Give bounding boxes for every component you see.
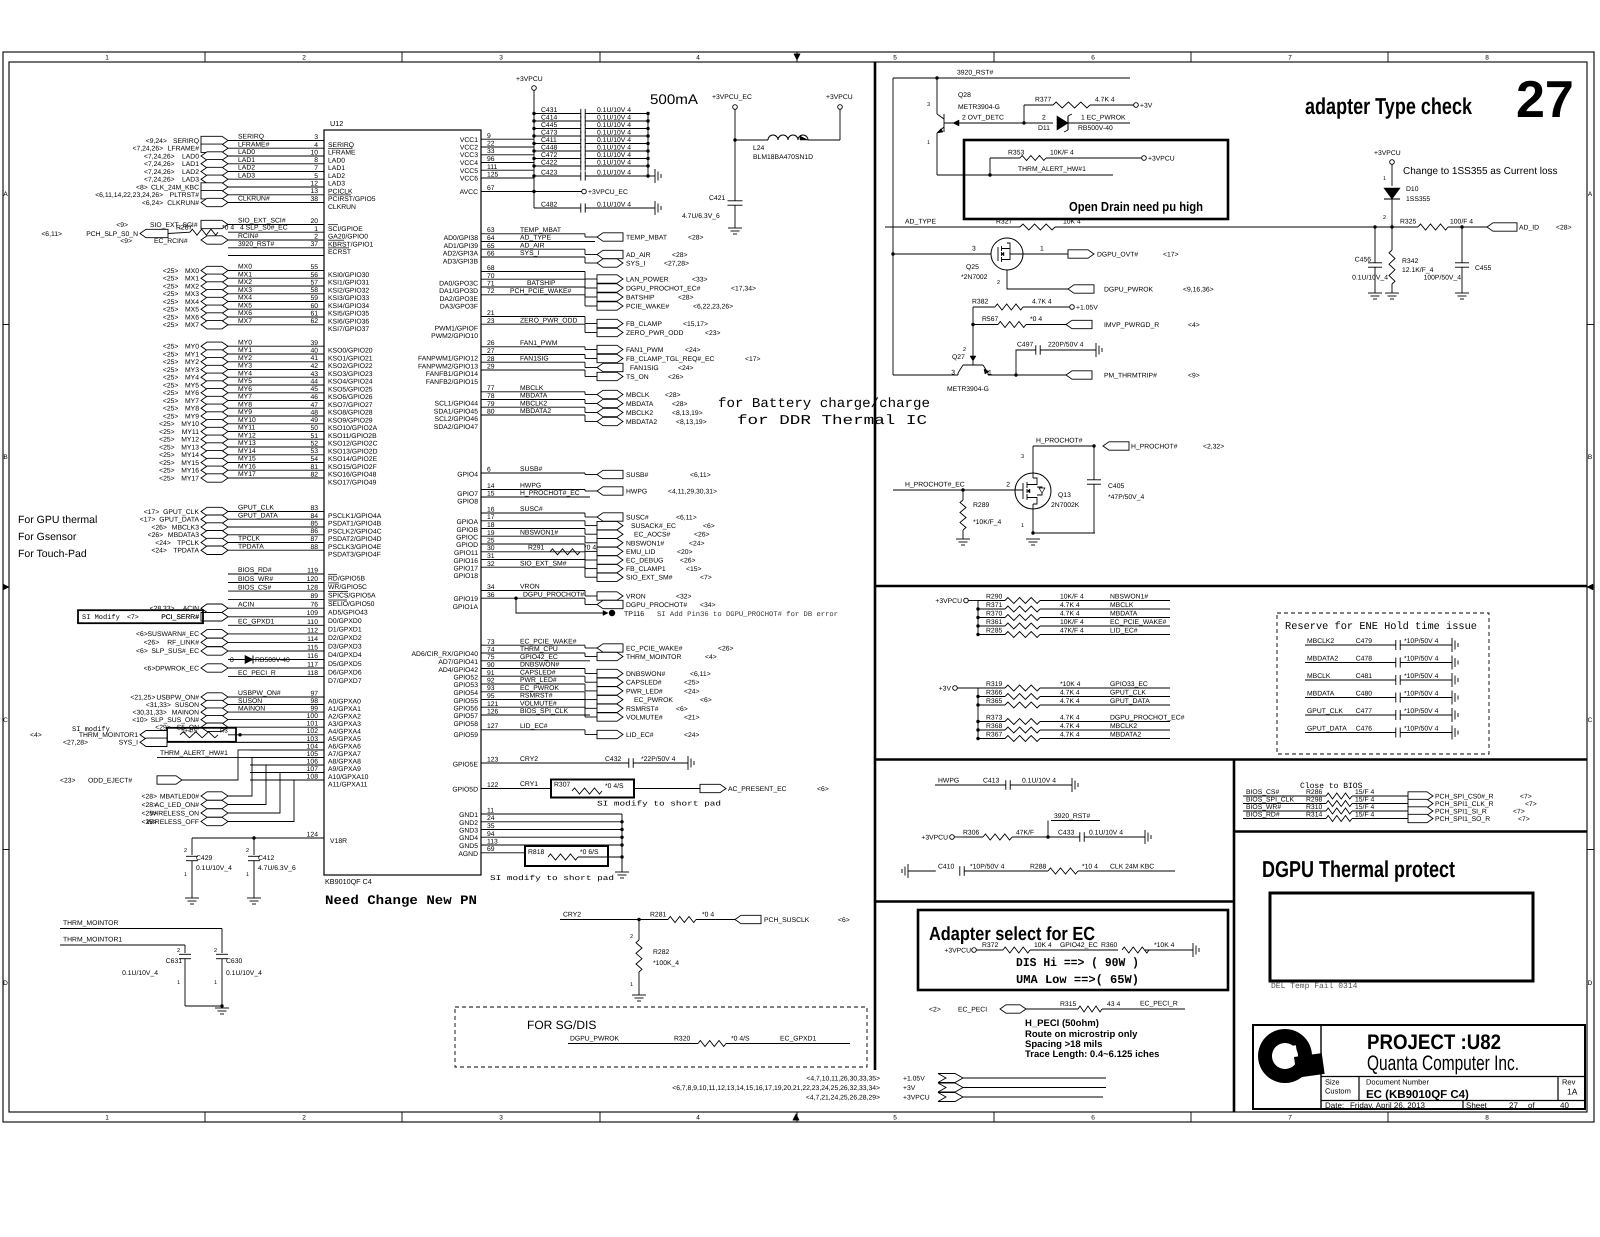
svg-text:47K/F: 47K/F (1016, 830, 1034, 837)
wire U12 pin 103 A6/GPXA6 (228, 741, 324, 743)
net callout PCH_SPI_CS0#_R (1408, 792, 1433, 800)
net callout EC_DEBUG (584, 552, 586, 560)
svg-text:107: 107 (307, 766, 319, 773)
svg-text:SIO_EXT_SCI#: SIO_EXT_SCI# (238, 218, 286, 225)
svg-text:<25>: <25> (163, 390, 179, 397)
svg-text:R567: R567 (982, 316, 998, 323)
svg-text:ECRST: ECRST (328, 249, 351, 256)
svg-text:ACIN: ACIN (238, 601, 254, 608)
svg-text:Open Drain need pu high: Open Drain need pu high (1069, 199, 1203, 214)
svg-text:3: 3 (972, 246, 976, 253)
svg-text:VCC1: VCC1 (460, 137, 478, 144)
svg-text:<28>: <28> (665, 392, 681, 399)
net callout SUSWARN#_EC (201, 630, 228, 639)
net callout MBDATA2 (584, 415, 586, 422)
svg-text:MAINON: MAINON (238, 705, 265, 712)
wire U12 pin 104 A7/GPXA7 (250, 749, 324, 751)
U12 pin 14 GPIO7 HWPG (481, 489, 585, 491)
net callout MY3 (201, 365, 228, 373)
svg-text:82: 82 (310, 472, 318, 479)
svg-text:<23>: <23> (705, 330, 721, 337)
svg-text:Reserve for ENE Hold time issu: Reserve for ENE Hold time issue (1285, 621, 1477, 633)
svg-text:<24>: <24> (155, 540, 171, 547)
wire U12 pin 93 (481, 691, 585, 693)
net callout ACIN (201, 604, 228, 612)
net callout TPDATA (201, 546, 228, 555)
svg-text:0.1U/10V 4: 0.1U/10V 4 (597, 152, 631, 159)
svg-text:*10P/50V 4: *10P/50V 4 (1404, 726, 1439, 733)
capacitor C456 0.1U/10V (1374, 227, 1376, 263)
svg-text:<21>: <21> (684, 715, 700, 722)
svg-text:R382: R382 (972, 299, 988, 306)
svg-text:72: 72 (487, 288, 495, 295)
svg-text:<28>: <28> (142, 793, 158, 800)
wire OVT_DETC base of Q28 (944, 122, 1053, 124)
svg-text:<26>: <26> (144, 640, 160, 647)
net callout MY4 (201, 373, 228, 381)
wire U12 pin 116 D5/GPXD5 (228, 659, 324, 661)
svg-text:RSMRST#: RSMRST# (520, 693, 553, 700)
svg-text:SI modify to short pad: SI modify to short pad (490, 874, 614, 883)
svg-text:FANPWM1/GPIO12: FANPWM1/GPIO12 (418, 356, 478, 363)
svg-text:BIOS_WR#: BIOS_WR# (238, 576, 273, 583)
resistor R367 4.7K 4 pullup for MBDATA2 (976, 737, 979, 740)
svg-text:<4>: <4> (1188, 322, 1200, 329)
capacitor C431 0.1U/10V 4 (534, 113, 581, 115)
ground for R289 (956, 538, 970, 540)
svg-text:87: 87 (310, 536, 318, 543)
net callout MAINON (201, 708, 228, 716)
wire U12 pin 78 SDA1/GPIO45 (481, 399, 585, 401)
svg-text:<25>: <25> (159, 468, 175, 475)
svg-text:<25>: <25> (163, 314, 179, 321)
svg-text:KSI4/GPIO34: KSI4/GPIO34 (328, 303, 369, 310)
ground for Q13 (1026, 538, 1040, 540)
svg-text:R361: R361 (986, 619, 1002, 626)
svg-text:R285: R285 (986, 628, 1002, 635)
svg-text:GND4: GND4 (459, 835, 478, 842)
svg-text:H_PROCHOT#: H_PROCHOT# (1131, 444, 1178, 451)
wire U12 pin 102 A5/GPXA5 (228, 734, 324, 736)
svg-text:SI modify to short pad: SI modify to short pad (597, 800, 721, 809)
wire U12 pin 117 D6/GPXD6 (228, 667, 324, 669)
wire U12 pin 16 (481, 512, 585, 514)
svg-text:1: 1 (246, 872, 249, 878)
svg-text:RF_LINK#: RF_LINK# (167, 640, 199, 647)
wire U12 pin 46 KSO7 (228, 400, 324, 402)
svg-text:GPIO5D: GPIO5D (452, 787, 478, 794)
svg-text:SLP_SUS_ON#: SLP_SUS_ON# (151, 717, 200, 724)
svg-text:47: 47 (310, 402, 318, 409)
wire U12 pin 35 GND3 (481, 829, 622, 831)
svg-text:31: 31 (487, 553, 495, 560)
svg-text:<25>: <25> (163, 291, 179, 298)
wire U12 pin 92 (481, 683, 585, 685)
svg-text:<31,33>: <31,33> (146, 702, 171, 709)
svg-text:CLK 24M KBC: CLK 24M KBC (1110, 864, 1154, 871)
svg-text:57: 57 (310, 280, 318, 287)
transistor Q27 METR3904-G thermtrip (972, 325, 974, 357)
svg-text:15/F 4: 15/F 4 (1355, 797, 1374, 804)
svg-text:<23>: <23> (60, 777, 76, 784)
svg-text:<4,7,10,11,26,30,33,35>: <4,7,10,11,26,30,33,35> (806, 1076, 880, 1083)
svg-text:101: 101 (307, 721, 319, 728)
svg-text:MY9: MY9 (238, 409, 252, 416)
svg-text:LAD2: LAD2 (238, 165, 255, 172)
svg-text:PCH_SPI1_SO_R: PCH_SPI1_SO_R (1435, 816, 1490, 823)
svg-text:*100K_4: *100K_4 (653, 960, 679, 967)
svg-text:122: 122 (487, 782, 499, 789)
svg-text:*10P/50V 4: *10P/50V 4 (1404, 673, 1439, 680)
net callout MX1 (201, 274, 228, 282)
wire U12 pin 66 AD3/GPI3B (481, 256, 585, 258)
svg-text:GPUT_CLK: GPUT_CLK (1307, 708, 1343, 715)
svg-text:<25>: <25> (142, 819, 158, 826)
svg-text:<7>: <7> (700, 575, 712, 582)
svg-text:MY8: MY8 (238, 401, 252, 408)
wire U12 pin 70 DA1/GPO3D (481, 278, 585, 280)
svg-text:*10 4: *10 4 (1082, 864, 1098, 871)
svg-text:71: 71 (487, 281, 495, 288)
svg-text:R319: R319 (986, 681, 1002, 688)
svg-text:108: 108 (307, 774, 319, 781)
ground symbol for GND bus (615, 871, 629, 873)
svg-text:+1.05V: +1.05V (1076, 305, 1098, 312)
svg-text:<25>: <25> (163, 299, 179, 306)
svg-text:<25>: <25> (163, 406, 179, 413)
svg-text:DNBSWON#: DNBSWON# (520, 662, 559, 669)
svg-text:C448: C448 (541, 144, 557, 151)
net AD_TYPE wire with R327 (885, 226, 1020, 228)
svg-text:BATSHIP: BATSHIP (527, 280, 556, 287)
svg-text:10K/F 4: 10K/F 4 (1060, 619, 1084, 626)
svg-text:PCH_SPI1_SI_R: PCH_SPI1_SI_R (1435, 809, 1487, 816)
svg-text:PSCLK2/GPIO4C: PSCLK2/GPIO4C (328, 528, 382, 535)
svg-text:KSI7/GPIO37: KSI7/GPIO37 (328, 326, 369, 333)
svg-text:79: 79 (487, 401, 495, 408)
svg-text:5: 5 (314, 173, 318, 180)
svg-text:EC_PECI: EC_PECI (958, 1007, 987, 1014)
svg-text:2: 2 (1383, 215, 1386, 221)
svg-text:1: 1 (988, 370, 992, 377)
svg-text:C476: C476 (1356, 726, 1372, 733)
svg-text:CAPSLED#: CAPSLED# (626, 680, 662, 687)
svg-text:55: 55 (310, 264, 318, 271)
svg-text:KSI3/GPIO33: KSI3/GPIO33 (328, 295, 369, 302)
net callout MX2 (201, 282, 228, 290)
net callout MY16 (201, 466, 228, 474)
svg-text:FAN1SIG: FAN1SIG (630, 365, 659, 372)
svg-text:KSI5/GPIO35: KSI5/GPIO35 (328, 311, 369, 318)
svg-text:<28>: <28> (672, 252, 688, 259)
svg-text:AVCC: AVCC (460, 189, 478, 196)
svg-text:D11: D11 (1038, 125, 1050, 132)
svg-text:A4/GPXA4: A4/GPXA4 (328, 729, 361, 736)
svg-text:3: 3 (951, 370, 955, 377)
svg-text:KSO3/GPIO23: KSO3/GPIO23 (328, 371, 373, 378)
capacitor C412 4.7U/6.3V_6 (253, 838, 255, 855)
svg-text:<25>: <25> (163, 359, 179, 366)
svg-text:4: 4 (696, 55, 700, 62)
svg-text:MY4: MY4 (185, 375, 199, 382)
svg-text:A1/GPXA1: A1/GPXA1 (328, 706, 361, 713)
net 3920_RST# wire (893, 77, 1130, 79)
svg-text:102: 102 (307, 728, 319, 735)
wire U12 pin 38 CLKRUN (228, 202, 324, 204)
wire U12 pin 5 LAD3 (228, 178, 324, 180)
svg-text:WR/GPIO5C: WR/GPIO5C (328, 584, 367, 591)
svg-text:R298: R298 (1306, 797, 1322, 804)
svg-text:KSI6/GPIO36: KSI6/GPIO36 (328, 318, 369, 325)
svg-text:MY16: MY16 (238, 463, 256, 470)
svg-text:SERIRQ: SERIRQ (328, 142, 354, 149)
svg-text:Date:: Date: (1325, 1101, 1344, 1110)
svg-text:SUSON: SUSON (175, 702, 199, 709)
svg-text:KSI1/GPIO31: KSI1/GPIO31 (328, 280, 369, 287)
svg-text:<7,24,26>: <7,24,26> (144, 153, 175, 160)
power symbol +3VPCU for R353 (1142, 156, 1147, 161)
svg-text:<7,24,26>: <7,24,26> (132, 146, 163, 153)
svg-text:8: 8 (314, 157, 318, 164)
svg-text:DA1/GPO3D: DA1/GPO3D (439, 288, 478, 295)
svg-text:85: 85 (310, 521, 318, 528)
svg-text:GPUT_DATA: GPUT_DATA (238, 513, 278, 520)
svg-text:HWPG: HWPG (626, 489, 647, 496)
svg-text:<6,11>: <6,11> (690, 472, 711, 479)
svg-text:TEMP_MBAT: TEMP_MBAT (626, 235, 667, 242)
svg-text:MX6: MX6 (185, 314, 199, 321)
svg-text:NBSWON1#: NBSWON1# (520, 530, 558, 537)
resistor R377 4.7K to +3V (1022, 121, 1025, 124)
svg-text:BIOS_SPI_CLK: BIOS_SPI_CLK (520, 708, 568, 715)
svg-text:MBDATA: MBDATA (626, 401, 654, 408)
resistor R319 *10K 4 pullup for GPIO33_EC (978, 687, 1005, 689)
svg-text:U12: U12 (330, 119, 343, 128)
svg-text:H_PROCHOT#_EC: H_PROCHOT#_EC (520, 490, 580, 497)
resistor R355 box on THRM_MOINTOR1 (167, 728, 236, 742)
svg-text:MBDATA: MBDATA (1307, 691, 1335, 698)
svg-text:92: 92 (487, 678, 495, 685)
net callout MY2 (201, 358, 228, 366)
svg-text:MX7: MX7 (238, 318, 252, 325)
wire U12 pin 18 (481, 528, 585, 530)
svg-text:DGPU_PROCHOT#: DGPU_PROCHOT# (523, 592, 584, 599)
wire U12 pin 62 KSI7/GPIO37 (228, 324, 324, 326)
svg-text:33: 33 (487, 148, 495, 155)
wire U12 pin 1 GA20/GPIO0 (228, 231, 324, 233)
ground for R342 (1385, 292, 1399, 294)
svg-text:MBDATA: MBDATA (520, 393, 548, 400)
wire U12 pin 115 D4/GPXD4 (228, 650, 324, 652)
svg-text:<15>: <15> (686, 566, 702, 573)
svg-text:C405: C405 (1108, 483, 1124, 490)
svg-text:A9/GPXA9: A9/GPXA9 (328, 766, 361, 773)
svg-text:0.1U/10V 4: 0.1U/10V 4 (597, 169, 631, 176)
svg-text:220P/50V 4: 220P/50V 4 (1048, 342, 1084, 349)
svg-text:R289: R289 (973, 502, 989, 509)
svg-text:GPIO11: GPIO11 (454, 550, 478, 557)
title block row line 2 (1321, 1100, 1585, 1102)
svg-text:25: 25 (487, 538, 495, 545)
ground for C455 (1455, 292, 1469, 294)
wire U12 pin 110 D1/GPXD1 (228, 624, 324, 626)
svg-text:MX1: MX1 (238, 271, 252, 278)
svg-text:21: 21 (487, 310, 495, 317)
svg-text:<6>: <6> (700, 697, 712, 704)
svg-text:86: 86 (310, 528, 318, 535)
wire U12 pin 84 PSDAT1/GPIO4B (228, 518, 324, 520)
svg-text:<10>: <10> (132, 717, 148, 724)
svg-text:AC_PRESENT_EC: AC_PRESENT_EC (728, 786, 787, 793)
svg-text:R315: R315 (1060, 1001, 1076, 1008)
svg-text:For Gsensor: For Gsensor (18, 531, 77, 543)
wire U12 pin 72 DA3/GPO3F (481, 294, 585, 296)
svg-text:C630: C630 (226, 958, 242, 965)
Open Drain note box (964, 140, 1228, 219)
svg-text:96: 96 (487, 156, 495, 163)
svg-text:<8>: <8> (136, 184, 148, 191)
wire U12 pin 101 A4/GPXA4 (228, 726, 324, 728)
svg-text:0.1U/10V 4: 0.1U/10V 4 (1022, 778, 1056, 785)
svg-text:*10K/F_4: *10K/F_4 (973, 519, 1002, 526)
svg-text:70: 70 (487, 273, 495, 280)
pullup bus 2 (977, 688, 979, 739)
svg-text:<25>: <25> (163, 322, 179, 329)
svg-text:49: 49 (310, 417, 318, 424)
svg-text:R373: R373 (986, 715, 1002, 722)
svg-text:<24>: <24> (685, 347, 701, 354)
wire U12 pin 60 KSI5/GPIO35 (228, 308, 324, 310)
svg-text:<7,24,26>: <7,24,26> (144, 161, 175, 168)
svg-text:MBDATA2: MBDATA2 (520, 408, 551, 415)
svg-text:C431: C431 (541, 107, 557, 114)
svg-text:FB_CLAMP_TGL_REQ#_EC: FB_CLAMP_TGL_REQ#_EC (626, 356, 714, 363)
svg-text:C497: C497 (1017, 342, 1033, 349)
svg-text:*0 6/S: *0 6/S (580, 849, 599, 856)
net callout SERIRQ (201, 136, 228, 144)
svg-text:2: 2 (630, 934, 633, 940)
svg-text:KSO4/GPIO24: KSO4/GPIO24 (328, 379, 373, 386)
wire U12 pin 23 PWM2/GPIO10 (481, 323, 585, 325)
svg-text:6: 6 (487, 467, 491, 474)
svg-text:BIOS_SPI_CLK: BIOS_SPI_CLK (1246, 797, 1294, 804)
svg-text:97: 97 (310, 691, 318, 698)
net callout FB_CLAMP_TGL_REQ#_EC (584, 355, 586, 359)
wire U12 pin 20 SCI/GPIOE (228, 224, 324, 226)
svg-text:MX0: MX0 (238, 264, 252, 271)
capacitor C432 *22P/50V 4 (628, 758, 630, 768)
svg-text:TPCLK: TPCLK (177, 540, 199, 547)
svg-text:MX6: MX6 (238, 310, 252, 317)
svg-text:6: 6 (1091, 55, 1095, 62)
svg-text:VOLMUTE#: VOLMUTE# (626, 715, 663, 722)
svg-text:PWM2/GPIO10: PWM2/GPIO10 (431, 333, 478, 340)
svg-text:SUSB#: SUSB# (520, 466, 543, 473)
svg-text:BIOS_CS#: BIOS_CS# (238, 584, 271, 591)
svg-text:LFRAME: LFRAME (328, 150, 356, 157)
svg-text:MY14: MY14 (181, 452, 199, 459)
svg-text:VCC4: VCC4 (460, 160, 478, 167)
section divider horizontal right-1 (875, 585, 1587, 588)
svg-text:GPIO18: GPIO18 (453, 573, 478, 580)
svg-text:<27,28>: <27,28> (63, 740, 88, 747)
svg-text:52: 52 (310, 441, 318, 448)
net callout MY14 (201, 451, 228, 459)
capacitor C445 0.1U/10V 4 (534, 128, 581, 130)
svg-text:for DDR Thermal IC: for DDR Thermal IC (737, 414, 927, 429)
svg-text:*0 4/S: *0 4/S (181, 728, 197, 735)
title block outer box (1253, 1025, 1585, 1109)
svg-text:MBCLK2: MBCLK2 (626, 410, 653, 417)
svg-text:PCH_PCIE_WAKE#: PCH_PCIE_WAKE# (510, 288, 572, 295)
svg-text:MY1: MY1 (185, 351, 199, 358)
net callout LFRAME# (201, 144, 228, 152)
svg-text:1: 1 (1040, 246, 1044, 253)
svg-text:2: 2 (1042, 115, 1046, 122)
svg-text:4: 4 (696, 1115, 700, 1122)
net callout GPUT_DATA (201, 515, 228, 524)
svg-text:BIOS_WR#: BIOS_WR# (1246, 804, 1281, 811)
svg-text:*10P/50V 4: *10P/50V 4 (1404, 691, 1439, 698)
svg-text:29: 29 (487, 364, 495, 371)
svg-text:65: 65 (487, 243, 495, 250)
svg-text:39: 39 (310, 340, 318, 347)
svg-text:GPIO42_EC: GPIO42_EC (1060, 942, 1098, 949)
svg-text:<25>: <25> (163, 382, 179, 389)
svg-text:<6>: <6> (817, 786, 829, 793)
wire U12 pin 3 SERIRQ (228, 140, 324, 142)
svg-text:for Battery charge/charge: for Battery charge/charge (718, 397, 930, 412)
svg-text:<25>: <25> (159, 437, 175, 444)
svg-text:<8,13,19>: <8,13,19> (676, 419, 707, 426)
svg-text:<7>: <7> (1525, 801, 1537, 808)
U12 pin 122 CRY1 with R307 (481, 788, 551, 790)
svg-text:*10P/50V 4: *10P/50V 4 (1404, 638, 1439, 645)
svg-text:125: 125 (487, 172, 499, 179)
svg-text:ODD_EJECT#: ODD_EJECT# (88, 777, 132, 784)
svg-text:81: 81 (310, 464, 318, 471)
svg-text:D: D (1588, 980, 1593, 987)
svg-text:C455: C455 (1475, 265, 1491, 272)
wire U12 pin 83 PSCLK1/GPIO4A (228, 511, 324, 513)
svg-text:Q28: Q28 (958, 92, 971, 99)
svg-text:8: 8 (230, 657, 234, 664)
svg-text:+3V: +3V (939, 686, 952, 693)
svg-text:<24>: <24> (678, 365, 694, 372)
svg-text:93: 93 (487, 685, 495, 692)
wire U12 pin 86 PSDAT2/GPIO4D (228, 534, 324, 536)
svg-text:R290: R290 (986, 594, 1002, 601)
svg-text:<17>: <17> (1163, 252, 1179, 259)
net callout PLTRST# (201, 191, 228, 199)
svg-text:10: 10 (310, 150, 318, 157)
resistor R371 4.7K 4 pullup for MBCLK (976, 607, 979, 610)
svg-text:<6>: <6> (838, 917, 850, 924)
svg-text:0.1U/10V 4: 0.1U/10V 4 (597, 159, 631, 166)
svg-text:THRM_MOINTOR: THRM_MOINTOR (626, 654, 681, 661)
svg-text:GPIO5E: GPIO5E (453, 762, 479, 769)
svg-text:27: 27 (1509, 1101, 1518, 1110)
svg-text:1: 1 (1021, 523, 1024, 529)
wire U12 pin 9 VCC1 (481, 138, 534, 140)
svg-text:42: 42 (310, 363, 318, 370)
svg-text:A10/GPXA10: A10/GPXA10 (328, 774, 369, 781)
net callout FB_CLAMP1 (584, 560, 586, 569)
svg-text:40: 40 (1560, 1101, 1569, 1110)
svg-text:L24: L24 (753, 145, 765, 152)
svg-text:AD2/GPI3A: AD2/GPI3A (443, 251, 479, 258)
svg-text:C: C (1588, 717, 1593, 724)
